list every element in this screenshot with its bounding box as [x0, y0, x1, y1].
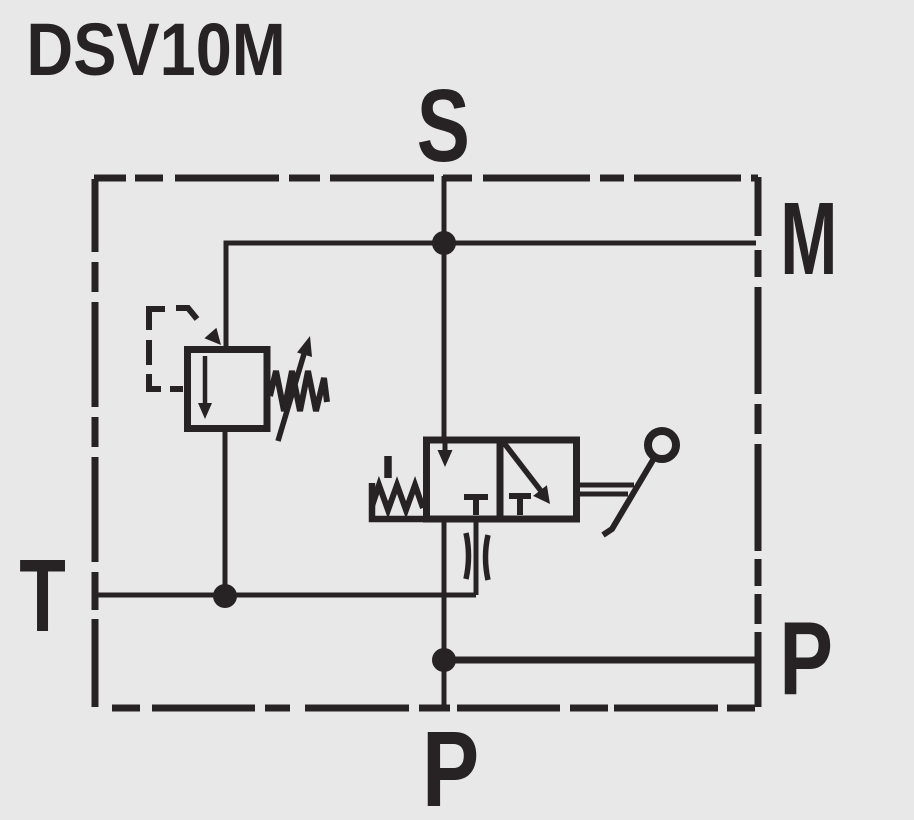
svg-text:DSV10M: DSV10M: [26, 8, 285, 91]
svg-text:P: P: [779, 600, 833, 717]
svg-text:P: P: [422, 709, 479, 820]
svg-text:T: T: [19, 539, 66, 654]
svg-text:M: M: [780, 181, 837, 296]
svg-text:S: S: [417, 68, 470, 183]
